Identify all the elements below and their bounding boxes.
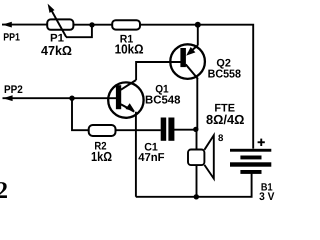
svg-text:3 V: 3 V bbox=[259, 191, 275, 203]
svg-text:10kΩ: 10kΩ bbox=[115, 42, 144, 57]
svg-text:PP2: PP2 bbox=[4, 84, 23, 96]
svg-text:47nF: 47nF bbox=[138, 152, 164, 164]
svg-text:47kΩ: 47kΩ bbox=[41, 43, 72, 58]
svg-text:PP1: PP1 bbox=[3, 32, 20, 44]
svg-text:8Ω/4Ω: 8Ω/4Ω bbox=[206, 112, 244, 127]
svg-text:2: 2 bbox=[0, 178, 8, 204]
svg-text:1kΩ: 1kΩ bbox=[91, 149, 112, 164]
svg-text:BC548: BC548 bbox=[145, 95, 181, 107]
svg-text:8: 8 bbox=[218, 133, 223, 144]
svg-text:BC558: BC558 bbox=[208, 69, 242, 81]
